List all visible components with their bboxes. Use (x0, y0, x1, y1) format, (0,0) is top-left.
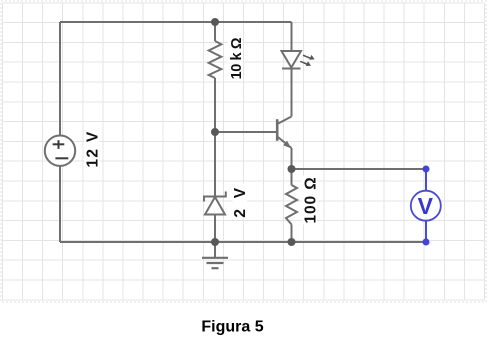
zener diode D2 triangle (205, 197, 225, 215)
wire LED top stub (291, 22, 293, 51)
wire R2 top stub (291, 169, 293, 185)
resistor R2 100Ω zigzag (286, 185, 297, 225)
wire R1 bottom to base node (214, 78, 216, 132)
junction node emitter/R2 (288, 165, 296, 173)
wire R2 bottom stub (291, 225, 293, 243)
wire top rail (60, 21, 292, 23)
LED D1 light arrow 2 (300, 61, 311, 66)
junction node top (R1/top rail) (211, 18, 219, 26)
wire LED cathode to collector (291, 69, 293, 117)
wire zener to bottom rail (214, 215, 216, 243)
wire bottom rail (60, 241, 423, 243)
LED D1 cathode bar (282, 68, 301, 70)
wire left rail lower (59, 166, 61, 242)
wire ground stub (214, 242, 216, 258)
label background patches (84, 37, 317, 225)
LED D1 light arrow 1 (303, 55, 315, 60)
voltmeter M1 bottom terminal (423, 239, 430, 246)
svg-text:10 k Ω: 10 k Ω (229, 37, 245, 79)
voltage source V1 circle (45, 136, 75, 166)
transistor Q1 base bar (276, 119, 279, 141)
junction node R2 bottom (288, 238, 296, 246)
LED D1 triangle (282, 51, 302, 68)
svg-text:100 Ω: 100 Ω (303, 176, 320, 223)
junction node base (211, 128, 219, 136)
svg-text:Figura 5: Figura 5 (201, 319, 263, 336)
voltmeter M1 circle (411, 191, 441, 221)
svg-text:V: V (418, 193, 434, 219)
svg-text:12 V: 12 V (85, 130, 102, 167)
wire R1 top stub (214, 22, 216, 41)
wire emitter node to voltmeter (292, 168, 424, 170)
resistor R1 10 kΩ zigzag (209, 41, 222, 78)
wire left rail upper (59, 22, 61, 136)
zener diode D2 cathode bar (204, 192, 226, 202)
transistor Q1 emitter arrowhead (283, 141, 291, 149)
transistor Q1 collector diagonal (277, 117, 291, 125)
voltmeter M1 wire (425, 169, 427, 242)
V1 plus sign (53, 140, 65, 149)
wire base horizontal (215, 131, 277, 133)
wire base node to zener (214, 132, 216, 197)
wire emitter vertical (291, 148, 293, 169)
svg-text:2 V: 2 V (232, 185, 249, 218)
V1 minus sign (55, 157, 68, 159)
transistor Q1 emitter diagonal (277, 137, 291, 149)
junction node zener/ground (211, 238, 219, 246)
voltmeter M1 top terminal (423, 166, 430, 173)
ground symbol (202, 258, 228, 268)
